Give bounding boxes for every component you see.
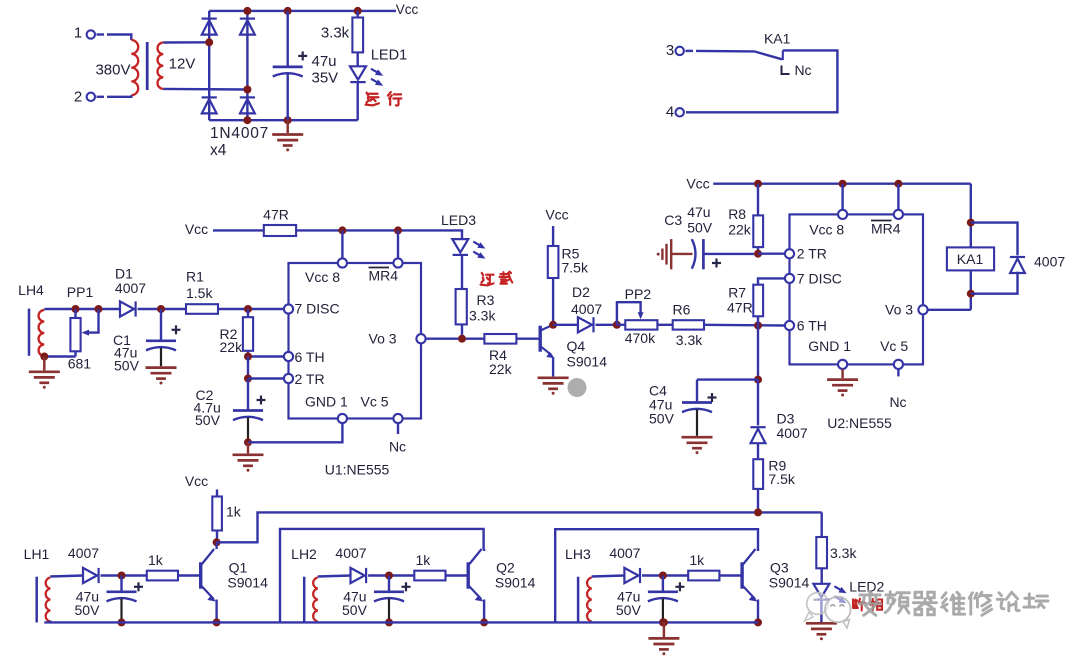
top Vcc rail bbox=[713, 182, 971, 184]
U2 pin 5 circle bbox=[894, 360, 903, 369]
wire relay bottom bbox=[970, 270, 972, 309]
svg-text:Vc 5: Vc 5 bbox=[880, 338, 908, 354]
svg-text:U2:NE555: U2:NE555 bbox=[827, 415, 892, 431]
power supply ground bbox=[286, 120, 289, 133]
top Vcc rail of power supply bbox=[209, 10, 396, 12]
svg-text:S9014: S9014 bbox=[227, 575, 268, 591]
capacitor 47u 50V stage 2 bbox=[388, 576, 390, 592]
emitter wire stage 1 bbox=[215, 600, 217, 623]
U1 NE555 box bbox=[289, 263, 422, 419]
U1 pin 5 circle bbox=[393, 414, 402, 423]
resistor R4 22k bbox=[484, 334, 516, 344]
LH1 coil bbox=[46, 578, 51, 622]
C2 ground bbox=[247, 442, 250, 453]
Q4 ground bbox=[538, 378, 569, 395]
junction top rail at capacitor bbox=[284, 7, 292, 15]
svg-text:4007: 4007 bbox=[68, 545, 99, 561]
svg-text:S9014: S9014 bbox=[567, 354, 608, 370]
junction Q1 collector node bbox=[213, 538, 221, 546]
wire C3 to 2TR node bbox=[703, 253, 754, 255]
svg-text:22k: 22k bbox=[489, 361, 513, 377]
svg-text:Q4: Q4 bbox=[567, 338, 586, 354]
wire LH3 to diode bbox=[592, 576, 625, 577]
svg-text:Q1: Q1 bbox=[229, 560, 248, 576]
relay coil KA1 bbox=[947, 247, 994, 270]
svg-text:x4: x4 bbox=[210, 142, 227, 159]
U1 pin5 Nc stub bbox=[397, 423, 399, 434]
svg-text:22k: 22k bbox=[220, 339, 244, 355]
U1 pin 4 circle bbox=[393, 258, 402, 267]
svg-text:D2: D2 bbox=[572, 284, 590, 300]
junction emitter stage 1 bbox=[213, 618, 221, 626]
junction cap bottom stage 1 bbox=[118, 618, 126, 626]
wire U1 GND1 to C2 ground bbox=[248, 423, 342, 442]
junction cap top stage 2 bbox=[385, 572, 393, 580]
svg-text:1.5k: 1.5k bbox=[186, 285, 213, 301]
KA1 contact blade bbox=[696, 51, 782, 59]
svg-text:1N4007: 1N4007 bbox=[210, 125, 269, 142]
junction C1 top bbox=[157, 305, 165, 313]
svg-text:Vc 5: Vc 5 bbox=[361, 394, 389, 410]
wire LH2 to diode bbox=[318, 576, 351, 577]
resistor R9 7.5k bbox=[753, 459, 763, 489]
svg-text:PP1: PP1 bbox=[67, 284, 94, 300]
junction R2 top bbox=[244, 305, 252, 313]
svg-text:S9014: S9014 bbox=[769, 575, 810, 591]
svg-text:1k: 1k bbox=[148, 552, 164, 568]
U1 pin 6 circle bbox=[284, 352, 293, 361]
transformer T1 primary winding 380V bbox=[131, 40, 138, 95]
label yunxing (running) red bbox=[366, 93, 379, 106]
wire primary bottom to terminal 2 bbox=[107, 95, 131, 97]
wire U1 Vo3 out bbox=[426, 338, 485, 340]
junction PP1 top bbox=[72, 305, 80, 313]
svg-text:S9014: S9014 bbox=[495, 575, 536, 591]
LH4 ground bbox=[43, 357, 46, 371]
svg-text:Nc: Nc bbox=[389, 439, 406, 455]
wire secondary bottom to bridge node B bbox=[163, 88, 247, 91]
U2 pin 1 circle bbox=[838, 360, 847, 369]
junction 6TH node bbox=[244, 353, 252, 361]
junction Q4 collector bbox=[549, 321, 557, 329]
resistor 1k pullup bbox=[216, 490, 218, 497]
resistor 1k stage 3 bbox=[688, 571, 719, 581]
svg-text:R3: R3 bbox=[477, 292, 495, 308]
svg-text:50V: 50V bbox=[75, 602, 101, 618]
svg-text:R1: R1 bbox=[186, 269, 204, 285]
U2 pin 3 circle bbox=[918, 305, 927, 314]
LH2 coil bbox=[313, 578, 318, 622]
diode D3 4007 bbox=[757, 380, 759, 426]
wire diode to 1k stage 1 bbox=[101, 574, 147, 576]
wire Q4 collector to R5 node bbox=[552, 324, 554, 327]
wire PP2 left terminal bbox=[617, 324, 625, 326]
svg-text:47R: 47R bbox=[263, 207, 289, 223]
wire R1 to U1 pin7 bbox=[218, 308, 284, 310]
svg-text:6 TH: 6 TH bbox=[295, 349, 325, 365]
U1 pin 8 circle bbox=[338, 258, 347, 267]
svg-text:4: 4 bbox=[666, 104, 674, 121]
U2 pin 7 circle bbox=[785, 274, 794, 283]
wire R9 to bus bbox=[757, 489, 759, 513]
U2 NE555 box bbox=[790, 214, 924, 364]
junction LH4 bottom bbox=[40, 353, 48, 361]
svg-text:2: 2 bbox=[74, 89, 82, 106]
wire Q4 collector to D2 bbox=[553, 324, 578, 326]
svg-text:50V: 50V bbox=[114, 358, 140, 374]
node B junction bbox=[243, 86, 251, 94]
junction Vo3 / R3 bbox=[458, 335, 466, 343]
svg-text:3.3k: 3.3k bbox=[469, 308, 496, 324]
wire 1k to base stage 1 bbox=[178, 574, 199, 576]
wire terminal1 to primary bbox=[107, 35, 131, 41]
emitter wire stage 2 bbox=[483, 600, 485, 623]
wire relay top to diode bbox=[971, 223, 1018, 256]
svg-text:KA1: KA1 bbox=[957, 251, 984, 267]
svg-text:Vcc: Vcc bbox=[185, 221, 208, 237]
svg-text:50V: 50V bbox=[649, 411, 675, 427]
capacitor C2 4.7u 50V bbox=[247, 379, 249, 411]
wire 1k to base stage 2 bbox=[446, 574, 467, 576]
junction rail U2 pin8 bbox=[839, 180, 847, 188]
wire rail to U1 pin8 bbox=[341, 230, 343, 258]
wire LH4 bottom bbox=[44, 354, 75, 357]
svg-text:Vcc: Vcc bbox=[396, 2, 419, 17]
wire D1 to R1 bbox=[138, 308, 186, 310]
transformer T1 secondary winding 12V bbox=[158, 43, 164, 89]
wire secondary top to bridge node A bbox=[163, 41, 209, 44]
svg-text:U1:NE555: U1:NE555 bbox=[325, 462, 390, 478]
svg-text:2 TR: 2 TR bbox=[295, 371, 325, 387]
wire D3 to R9 bbox=[757, 443, 759, 459]
svg-text:LED3: LED3 bbox=[441, 212, 476, 228]
bridge diode bottom-right 1N4007 bbox=[240, 97, 255, 113]
svg-text:380V: 380V bbox=[95, 62, 130, 79]
svg-text:Vcc 8: Vcc 8 bbox=[809, 222, 844, 238]
wire rail to U1 pin4 bbox=[397, 230, 399, 258]
U1 pin 3 circle bbox=[416, 334, 425, 343]
svg-text:4007: 4007 bbox=[115, 280, 146, 296]
svg-text:1: 1 bbox=[74, 25, 82, 42]
wire LED2 to ground bbox=[820, 600, 822, 622]
svg-text:LED1: LED1 bbox=[371, 48, 407, 64]
svg-text:7 DISC: 7 DISC bbox=[797, 270, 842, 286]
wire 6TH node down bbox=[757, 326, 759, 380]
svg-text:LH2: LH2 bbox=[291, 546, 317, 562]
svg-text:1k: 1k bbox=[689, 552, 705, 568]
KA1 contact fixed tick bbox=[782, 50, 784, 60]
junction rail U2 pin4 bbox=[894, 180, 902, 188]
junction R8 bottom / 2TR bbox=[754, 250, 762, 258]
junction U2 6TH node bbox=[754, 322, 762, 330]
svg-text:Q3: Q3 bbox=[770, 560, 789, 576]
U1 pin 1 circle bbox=[338, 414, 347, 423]
transistor Q3 S9014 bbox=[742, 549, 757, 602]
junction cap top stage 1 bbox=[118, 572, 126, 580]
gray watermark dot bbox=[568, 378, 587, 397]
collector wire stage 1 bbox=[215, 543, 217, 550]
wire rail down to relay bbox=[970, 184, 972, 248]
junction rail pin4 column bbox=[394, 226, 402, 234]
LH4 coil bbox=[39, 310, 45, 356]
svg-text:50V: 50V bbox=[616, 602, 642, 618]
svg-text:GND 1: GND 1 bbox=[808, 338, 851, 354]
LH2 bar bbox=[303, 577, 306, 623]
svg-text:50V: 50V bbox=[195, 412, 221, 428]
filter capacitor 47u 35V bbox=[287, 11, 289, 67]
resistor 3.3k LED2 series bbox=[816, 537, 827, 568]
U2 pin 6 circle bbox=[785, 321, 794, 330]
junction rail R8 bbox=[754, 180, 762, 188]
bottom rail ground bbox=[663, 622, 666, 637]
wire R4 to Q4 base bbox=[516, 338, 538, 340]
transistor Q4 S9014 bbox=[540, 325, 555, 358]
junction rail pin8 column bbox=[338, 226, 346, 234]
svg-text:7.5k: 7.5k bbox=[768, 471, 795, 487]
resistor R3 3.3k bbox=[456, 289, 467, 324]
svg-text:1k: 1k bbox=[226, 504, 242, 520]
wire LH1 to diode bbox=[50, 576, 83, 577]
transistor Q2 S9014 bbox=[468, 549, 483, 602]
label duanxiang (phase loss) red bbox=[853, 599, 865, 611]
svg-text:Q2: Q2 bbox=[496, 560, 515, 576]
wire rail to U2 pin8 bbox=[841, 184, 843, 210]
resistor 1k stage 1 bbox=[147, 571, 178, 581]
LH3 bar bbox=[577, 577, 580, 623]
junction relay bottom bbox=[967, 290, 975, 298]
wire contact to terminal 4 bbox=[686, 50, 837, 112]
svg-text:Vcc 8: Vcc 8 bbox=[305, 269, 340, 285]
svg-text:R6: R6 bbox=[673, 301, 691, 317]
LED2 ground bbox=[806, 623, 837, 640]
junction cap bottom stage 3 bbox=[659, 618, 667, 626]
resistor 3.3k LED1 series bbox=[357, 11, 359, 18]
svg-text:PP2: PP2 bbox=[625, 286, 652, 302]
LH3 coil bbox=[587, 578, 592, 622]
wire rail to U2 pin4 bbox=[897, 184, 899, 210]
watermark text bianpinqi weixiu luntan bbox=[859, 591, 880, 615]
U2 pin5 Nc stub bbox=[897, 369, 899, 377]
resistor 1k stage 2 bbox=[414, 571, 445, 581]
svg-text:3.3k: 3.3k bbox=[830, 545, 857, 561]
bridge left column wire bbox=[208, 11, 210, 120]
svg-text:LH1: LH1 bbox=[24, 546, 50, 562]
bridge diode bottom-left 1N4007 bbox=[202, 97, 217, 113]
svg-text:Nc: Nc bbox=[889, 394, 906, 410]
transistor Q1 S9014 bbox=[201, 549, 216, 602]
U2 pin 8 circle bbox=[838, 210, 847, 219]
capacitor C4 47u 50V bbox=[696, 380, 698, 403]
collector wire stage 3 bbox=[757, 549, 759, 551]
junction PP2 wiper bbox=[613, 321, 621, 329]
svg-text:6 TH: 6 TH bbox=[797, 318, 827, 334]
wire LED3 to R3 bbox=[461, 255, 463, 289]
junction bus R9 bbox=[754, 508, 762, 516]
resistor R7 47R bbox=[758, 278, 785, 284]
contact L mark bbox=[782, 66, 790, 75]
svg-text:7.5k: 7.5k bbox=[562, 260, 589, 276]
svg-text:MR4: MR4 bbox=[871, 221, 901, 237]
wire LH4 top to D1 bbox=[44, 308, 120, 310]
svg-text:50V: 50V bbox=[342, 602, 368, 618]
emitter wire stage 3 bbox=[757, 600, 759, 623]
svg-text:Vcc: Vcc bbox=[686, 176, 709, 192]
watermark logo bubbles bbox=[805, 593, 851, 628]
svg-text:7 DISC: 7 DISC bbox=[295, 301, 340, 317]
collector bus to R9/LED2 bbox=[217, 512, 822, 542]
label guozai (overload) red bbox=[481, 273, 494, 286]
wire R5 to Q4 collector bbox=[552, 278, 554, 325]
svg-text:Vo 3: Vo 3 bbox=[369, 331, 397, 347]
junction top rail at bridge right bbox=[243, 7, 251, 15]
wire to C4 bbox=[697, 378, 758, 380]
junction bottom rail at ground bbox=[284, 116, 292, 124]
capacitor C1 47u 50V bbox=[160, 309, 162, 341]
U2 pin 2 circle bbox=[785, 249, 794, 258]
junction top rail at LED branch bbox=[354, 7, 362, 15]
transformer core bbox=[146, 42, 149, 90]
wire D2 to PP2 bbox=[596, 324, 617, 326]
svg-text:47u: 47u bbox=[687, 204, 710, 220]
junction PP1 wiper bbox=[95, 305, 103, 313]
wire Vcc to 47R bbox=[213, 229, 264, 231]
wire 3.3k to LED2 bbox=[821, 568, 823, 584]
svg-text:4007: 4007 bbox=[777, 425, 808, 441]
svg-text:35V: 35V bbox=[312, 70, 339, 87]
Q4 emitter wire bbox=[552, 358, 554, 377]
svg-text:3.3k: 3.3k bbox=[321, 25, 350, 42]
svg-text:LH4: LH4 bbox=[18, 282, 44, 298]
resistor R5 7.5k bbox=[552, 226, 554, 246]
U1 pin 7 circle bbox=[284, 304, 293, 313]
svg-text:47R: 47R bbox=[727, 300, 753, 316]
LH1 bar bbox=[35, 577, 38, 623]
junction emitter stage 3 bbox=[754, 618, 762, 626]
svg-text:22k: 22k bbox=[728, 222, 752, 238]
svg-text:C3: C3 bbox=[664, 212, 682, 228]
junction cap bottom stage 2 bbox=[385, 618, 393, 626]
wire to U2 pin2 bbox=[758, 252, 785, 254]
svg-text:Nc: Nc bbox=[794, 62, 811, 78]
bottom rail of power supply bbox=[209, 119, 358, 121]
capacitor 47u 50V stage 1 bbox=[120, 576, 122, 592]
bottom emitter rail bbox=[44, 621, 758, 623]
collector wire stage 2 bbox=[483, 549, 485, 551]
wire R2 bottom to U1 pin6 bbox=[248, 355, 284, 357]
svg-text:2 TR: 2 TR bbox=[797, 246, 827, 262]
capacitor 47u 50V stage 3 bbox=[662, 576, 664, 592]
svg-text:Vcc: Vcc bbox=[545, 207, 568, 223]
resistor 47R bbox=[264, 225, 296, 236]
LH2 collector feed rectangle bbox=[280, 529, 484, 623]
svg-text:681: 681 bbox=[68, 356, 92, 372]
wire down to 2TR bbox=[247, 357, 249, 379]
wire to U1 pin2 bbox=[248, 377, 284, 379]
bridge right column wire bbox=[246, 11, 248, 120]
resistor R8 22k bbox=[757, 184, 759, 216]
svg-text:R8: R8 bbox=[728, 206, 746, 222]
LH4 bar bbox=[28, 309, 31, 356]
svg-text:4007: 4007 bbox=[609, 545, 640, 561]
U2 GND ground bbox=[841, 369, 844, 378]
junction 2TR node bbox=[244, 375, 252, 383]
wire R3 to Vo3 node bbox=[461, 324, 463, 338]
wire diode to 1k stage 3 bbox=[642, 574, 688, 576]
wire PP2 to R6 bbox=[657, 324, 672, 326]
svg-text:47u: 47u bbox=[312, 53, 337, 70]
bottom rail ground junction bbox=[660, 618, 668, 626]
node A junction bbox=[205, 38, 213, 46]
C4 ground bbox=[682, 437, 713, 454]
svg-text:4007: 4007 bbox=[571, 301, 602, 317]
wire R6 to 6TH node of U2 bbox=[704, 324, 785, 327]
svg-text:MR4: MR4 bbox=[369, 268, 399, 284]
junction bottom rail at bridge right bbox=[243, 116, 251, 124]
svg-text:3.3k: 3.3k bbox=[676, 332, 703, 348]
svg-text:4007: 4007 bbox=[1034, 254, 1065, 270]
junction C4 node bbox=[754, 376, 762, 384]
svg-text:3: 3 bbox=[666, 42, 674, 59]
wire U2 Vo3 to relay bbox=[928, 309, 971, 311]
junction cap top stage 3 bbox=[659, 572, 667, 580]
svg-text:1k: 1k bbox=[416, 552, 432, 568]
junction C2 bottom / U1 GND bbox=[244, 438, 252, 446]
svg-text:LED2: LED2 bbox=[849, 579, 884, 595]
svg-text:KA1: KA1 bbox=[764, 30, 791, 46]
svg-text:50V: 50V bbox=[687, 220, 713, 236]
svg-text:Vcc: Vcc bbox=[185, 473, 208, 489]
svg-text:Vo 3: Vo 3 bbox=[885, 302, 913, 318]
svg-text:4007: 4007 bbox=[335, 545, 366, 561]
svg-text:LH3: LH3 bbox=[565, 546, 591, 562]
C1 ground bbox=[146, 368, 177, 385]
bridge diode top-left 1N4007 bbox=[202, 19, 217, 35]
LH1 coil bottom corner bbox=[49, 621, 51, 623]
U1 pin 2 circle bbox=[284, 374, 293, 383]
svg-text:12V: 12V bbox=[169, 56, 196, 73]
flyback diode 4007 bbox=[971, 272, 1018, 294]
U2 pin 4 circle bbox=[894, 210, 903, 219]
rail 47R to LED3 corner bbox=[296, 230, 462, 239]
junction relay top bbox=[967, 219, 975, 227]
svg-text:470k: 470k bbox=[625, 330, 656, 346]
LH3 collector feed rectangle bbox=[555, 529, 758, 622]
bridge diode top-right 1N4007 bbox=[240, 19, 255, 35]
wire diode to 1k stage 2 bbox=[368, 574, 414, 576]
junction emitter stage 2 bbox=[480, 618, 488, 626]
wire 1k to base stage 3 bbox=[719, 574, 740, 576]
svg-text:R7: R7 bbox=[728, 284, 746, 300]
svg-text:GND 1: GND 1 bbox=[305, 394, 348, 410]
wire bus to 3.3k bbox=[821, 512, 823, 537]
